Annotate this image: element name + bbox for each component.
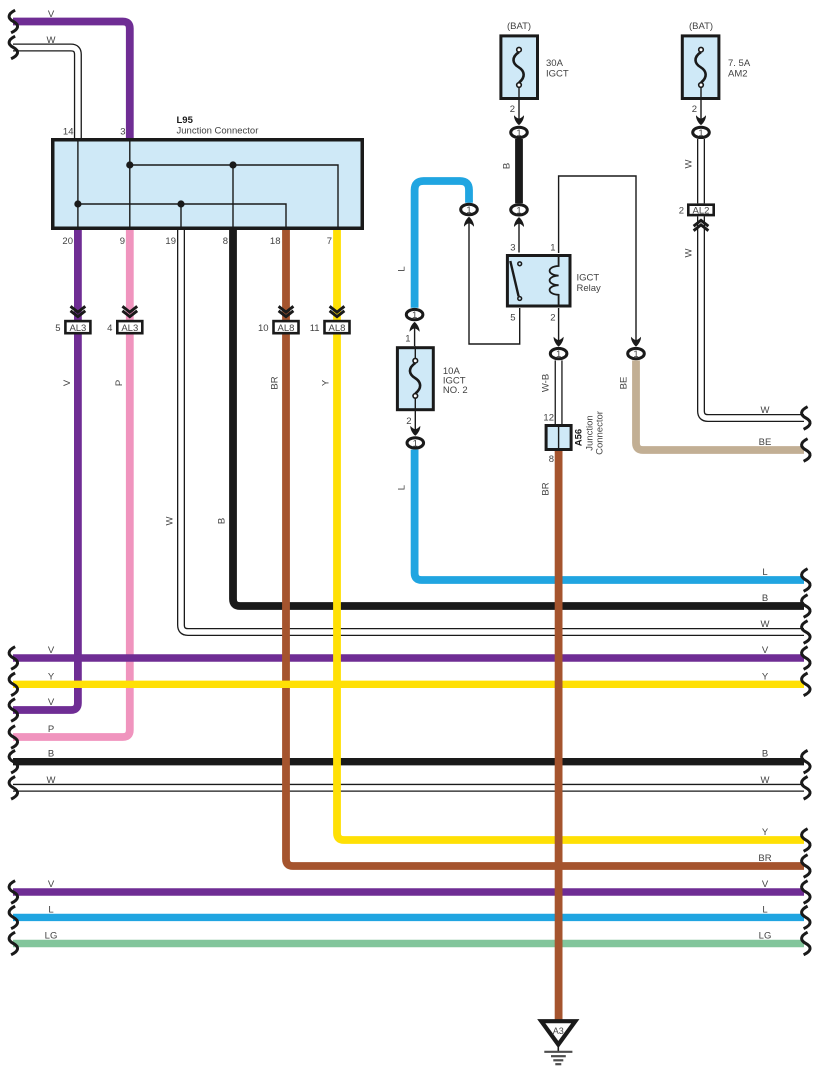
svg-text:A56: A56 [574, 429, 585, 446]
svg-text:Relay: Relay [577, 283, 602, 294]
junction dot pin19 branch [177, 200, 184, 207]
svg-text:V: V [48, 645, 55, 656]
svg-text:IGCT: IGCT [577, 273, 600, 284]
svg-text:BR: BR [541, 482, 552, 495]
relay switch contact [518, 262, 522, 266]
connector oval 1 (relay pin5 side) [461, 204, 478, 214]
svg-text:7. 5A: 7. 5A [728, 58, 751, 69]
svg-text:W: W [684, 159, 695, 168]
svg-text:7: 7 [327, 236, 332, 247]
wire V top-left (violet) [13, 22, 130, 140]
chevron connector mark above AL8 pin10 [279, 306, 294, 316]
fuse 10A element [414, 346, 416, 358]
wire W from AM2 to AL2 (white) [697, 139, 705, 203]
svg-text:1: 1 [516, 128, 521, 139]
svg-text:AM2: AM2 [728, 69, 748, 80]
svg-text:W: W [761, 619, 770, 630]
connector oval 1 (10A fuse bottom) [407, 438, 424, 448]
internal wire branch to pin18 [78, 204, 286, 229]
break symbols Y bus [9, 673, 17, 696]
svg-text:5: 5 [55, 323, 60, 334]
svg-text:18: 18 [270, 236, 281, 247]
wire L bottom full-width bus (light blue) [13, 914, 804, 921]
svg-text:W: W [47, 35, 56, 46]
svg-text:1: 1 [413, 438, 418, 449]
wire Y from pin7 down to right edge (yellow) [337, 230, 804, 840]
connector AL3 pin4 box [117, 321, 142, 333]
svg-text:Y: Y [762, 671, 769, 682]
break symbols W bus [9, 777, 17, 800]
svg-text:LG: LG [759, 931, 772, 942]
svg-text:Y: Y [48, 671, 55, 682]
svg-text:BE: BE [759, 437, 772, 448]
wire L cyan top (to relay oval) [415, 181, 469, 308]
svg-text:W: W [47, 775, 56, 786]
svg-text:BR: BR [758, 853, 771, 864]
svg-text:A3: A3 [553, 1026, 564, 1036]
internal wire branch to pin7 [130, 165, 338, 229]
svg-text:L: L [48, 904, 53, 915]
svg-text:20: 20 [62, 236, 73, 247]
wire relay pin5 loop to cyan oval (thin) [469, 223, 520, 344]
internal wire branch to pin19 [180, 204, 182, 229]
svg-text:12: 12 [543, 413, 554, 424]
connector AL2 box [688, 205, 713, 215]
svg-text:W: W [684, 248, 695, 257]
svg-text:1: 1 [466, 205, 471, 216]
svg-text:AL8: AL8 [329, 323, 346, 334]
svg-text:B: B [502, 163, 513, 169]
svg-text:IGCT: IGCT [546, 69, 569, 80]
svg-text:14: 14 [63, 127, 74, 138]
svg-text:B: B [217, 518, 228, 524]
svg-text:B: B [762, 593, 768, 604]
junction connector L95 box [53, 140, 363, 229]
connector oval 1 (BE branch) [628, 348, 645, 358]
junction dot pin8 branch [229, 161, 236, 168]
svg-text:Connector: Connector [595, 411, 606, 455]
arrow up into oval (10A fuse top) [410, 322, 420, 332]
internal wire pin14 to pin20 [77, 140, 79, 229]
svg-text:LG: LG [45, 931, 58, 942]
wire B fuse30A to relay (black) [515, 139, 523, 203]
break symbols LG bottom bus [9, 932, 17, 955]
break symbols V bus [9, 647, 17, 670]
svg-text:19: 19 [165, 236, 176, 247]
arrow into oval (relay pin2 out) [554, 337, 564, 347]
wire Y full-width bus [13, 681, 804, 688]
svg-text:10: 10 [258, 323, 269, 334]
wire BE to right edge (beige) [636, 360, 804, 450]
svg-text:5: 5 [510, 313, 515, 324]
junction connector A56 box [546, 426, 571, 450]
fuse 30A IGCT box [501, 36, 538, 99]
connector oval 1 (AM2 output) [693, 127, 710, 137]
svg-text:30A: 30A [546, 58, 564, 69]
svg-text:BE: BE [619, 377, 630, 390]
break symbol right L [802, 569, 810, 592]
connector oval 1 (relay pin2 out) [550, 348, 567, 358]
break symbol right BE [802, 439, 810, 462]
fuse 7.5A AM2 box [682, 36, 719, 99]
wire W-B to A56 (white) [555, 360, 563, 424]
svg-text:BR: BR [270, 376, 281, 389]
svg-text:AL8: AL8 [278, 323, 295, 334]
chevron connector mark below AL2 (pointing up) [694, 220, 709, 230]
svg-text:W: W [761, 405, 770, 416]
fuse 10A IGCT NO.2 box [397, 348, 433, 410]
connector AL3 pin5 box [65, 321, 90, 333]
svg-text:3: 3 [510, 243, 515, 254]
svg-text:1: 1 [633, 349, 638, 360]
svg-text:B: B [48, 749, 54, 760]
connector AL8 pin10 box [274, 321, 299, 333]
junction dot pin20 branch [74, 200, 81, 207]
svg-text:L: L [397, 266, 408, 271]
svg-text:Y: Y [321, 379, 332, 386]
svg-text:P: P [114, 380, 125, 386]
ground stem [557, 1045, 559, 1052]
wire L cyan bottom to right bus [415, 450, 804, 580]
svg-text:W-B: W-B [541, 374, 552, 392]
svg-text:L95: L95 [177, 115, 194, 126]
arrow into oval (AM2 output) [696, 115, 706, 125]
wire W from AL2 down to right bus (white) [701, 216, 804, 418]
svg-text:2: 2 [510, 104, 515, 115]
svg-text:(BAT): (BAT) [689, 21, 713, 32]
arrow up into oval (relay pin5 side) [464, 217, 474, 227]
svg-text:L: L [762, 567, 767, 578]
svg-text:2: 2 [692, 104, 697, 115]
svg-text:2: 2 [550, 313, 555, 324]
break symbol right W (AL2 branch) [802, 407, 810, 430]
relay coil [550, 256, 559, 307]
fuse 30A element [514, 52, 524, 83]
wire V from pin20 down to left edge (violet) [13, 230, 78, 710]
wire relay pin1 to BE oval (thin) [559, 176, 636, 341]
junction dot pin3 branch [126, 161, 133, 168]
chevron connector mark above AL8 pin11 [330, 306, 345, 316]
wire B from pin8 to right bus (black) [233, 230, 804, 606]
break symbols B bus [9, 750, 17, 773]
break symbols L bottom bus [9, 906, 17, 929]
wire to relay pin 3 [518, 223, 520, 253]
svg-text:Y: Y [762, 827, 769, 838]
svg-text:Junction Connector: Junction Connector [177, 126, 259, 137]
svg-text:V: V [48, 697, 55, 708]
wire 10A fuse pin1 lead [414, 328, 416, 346]
ground hatch lines [544, 1052, 572, 1064]
relay IGCT box [507, 256, 570, 307]
chevron connector mark above AL3 pin4 [122, 306, 137, 316]
svg-text:V: V [762, 879, 769, 890]
svg-text:AL3: AL3 [69, 323, 86, 334]
wire fuse AM2 pin2 lead [700, 87, 702, 118]
break symbol right Y [802, 829, 810, 852]
wire B full-width bus [13, 758, 804, 765]
svg-text:1: 1 [405, 334, 410, 345]
break symbol right edge B [802, 595, 810, 618]
break symbols V bottom bus [9, 881, 17, 904]
arrow into oval (10A fuse bottom) [410, 426, 420, 436]
ground A3 triangle [541, 1021, 575, 1044]
svg-text:L: L [397, 485, 408, 490]
wire BR from A56 to ground (brown) [555, 451, 563, 1021]
svg-text:3: 3 [120, 127, 125, 138]
svg-text:1: 1 [550, 243, 555, 254]
svg-text:W: W [165, 516, 176, 525]
break symbol right edge W [802, 621, 810, 644]
svg-text:L: L [762, 904, 767, 915]
chevron connector mark above AL3 pin5 [71, 306, 86, 316]
break symbol left V stub [9, 699, 17, 722]
wire W from pin19 to right bus (white) [181, 230, 804, 632]
svg-text:9: 9 [120, 236, 125, 247]
svg-text:V: V [62, 379, 73, 386]
wire LG bottom full-width bus (light green) [13, 940, 804, 947]
svg-text:8: 8 [549, 454, 554, 465]
svg-text:NO. 2: NO. 2 [443, 385, 468, 396]
connector oval 1 (10A fuse top) [406, 309, 423, 319]
arrow up into oval (relay pin3 side) [514, 217, 524, 227]
svg-text:(BAT): (BAT) [507, 21, 531, 32]
svg-text:B: B [762, 749, 768, 760]
svg-text:1: 1 [698, 128, 703, 139]
svg-text:2: 2 [406, 416, 411, 427]
wire P from pin9 down to left edge (pink) [13, 230, 130, 737]
arrow into oval (BE branch) [631, 337, 641, 347]
wire V bottom full-width bus [13, 888, 804, 895]
break symbol left edge wire V [9, 10, 17, 33]
arrow into connector (30A output) [514, 115, 524, 125]
internal wire branch to pin8 [232, 165, 234, 229]
break symbol left edge wire W [9, 36, 17, 59]
connector oval 1 (30A output) [511, 127, 528, 137]
svg-text:8: 8 [223, 236, 228, 247]
svg-text:P: P [48, 724, 54, 735]
fuse AM2 element [696, 52, 706, 83]
wire BR from pin18 down to right edge (brown) [286, 230, 804, 866]
connector AL8 pin11 box [325, 321, 350, 333]
svg-text:11: 11 [310, 323, 320, 334]
break symbol right BR [802, 855, 810, 878]
svg-text:1: 1 [412, 310, 417, 321]
break symbol left P stub [9, 726, 17, 749]
wire relay pin2 down (thin) [558, 308, 560, 341]
svg-text:V: V [48, 9, 55, 20]
svg-text:4: 4 [107, 323, 112, 334]
svg-text:AL2: AL2 [693, 205, 710, 216]
svg-text:V: V [762, 645, 769, 656]
svg-text:W: W [761, 775, 770, 786]
svg-text:2: 2 [679, 205, 684, 216]
svg-text:1: 1 [516, 205, 521, 216]
wire W top-left (white) [13, 48, 78, 140]
wire V full-width bus [13, 654, 804, 661]
wire W full-width bus (white) [13, 784, 804, 792]
connector oval 1 (relay pin3 side) [511, 205, 528, 215]
svg-text:1: 1 [556, 349, 561, 360]
internal wire pin3 to pin9 [129, 140, 131, 229]
svg-text:AL3: AL3 [121, 323, 138, 334]
svg-text:V: V [48, 879, 55, 890]
wire fuse 30A pin2 lead [518, 87, 520, 118]
